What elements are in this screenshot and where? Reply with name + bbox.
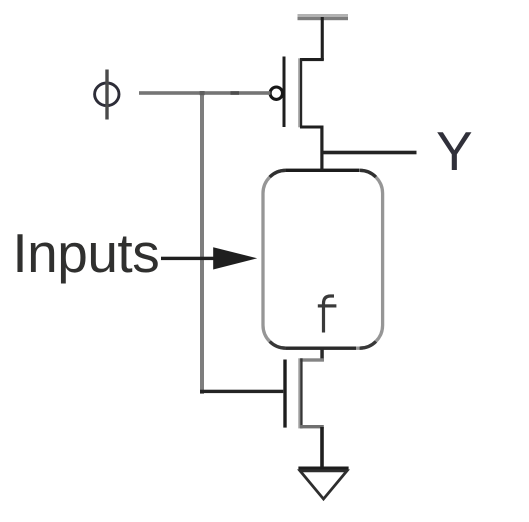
label Inputs — [12, 222, 159, 284]
gate line — [283, 57, 286, 128]
wire phi to PMOS gate — [139, 91, 270, 95]
pulldown network box f — [263, 170, 383, 348]
junction phi wire and branch — [200, 91, 205, 95]
transistor M1 precharge PMOS — [270, 57, 302, 128]
wire VDD to PMOS drain — [300, 17, 324, 61]
inputs arrowhead — [213, 247, 257, 269]
gate bubble — [270, 87, 282, 99]
ground symbol — [298, 467, 348, 500]
wire PMOS source down to box top — [300, 126, 324, 171]
svg-text:Y: Y — [436, 120, 473, 182]
wire NMOS source to ground — [300, 425, 324, 469]
wire phi branch to NMOS gate — [200, 390, 283, 393]
transistor M2 evaluation NMOS — [283, 358, 302, 428]
wire phi dark segment — [231, 91, 240, 95]
gate line — [283, 360, 286, 428]
svg-text:Inputs: Inputs — [12, 222, 159, 284]
wire phi branch down left — [200, 91, 204, 394]
channel — [298, 58, 300, 127]
label f — [318, 296, 337, 333]
power rail VDD — [298, 14, 349, 20]
wire output node Y — [322, 151, 417, 155]
channel — [298, 358, 300, 428]
clock label phi — [95, 70, 119, 120]
wire inputs arrow shaft — [161, 257, 240, 260]
label Y — [436, 120, 473, 182]
wire box bottom to NMOS drain — [300, 348, 324, 361]
